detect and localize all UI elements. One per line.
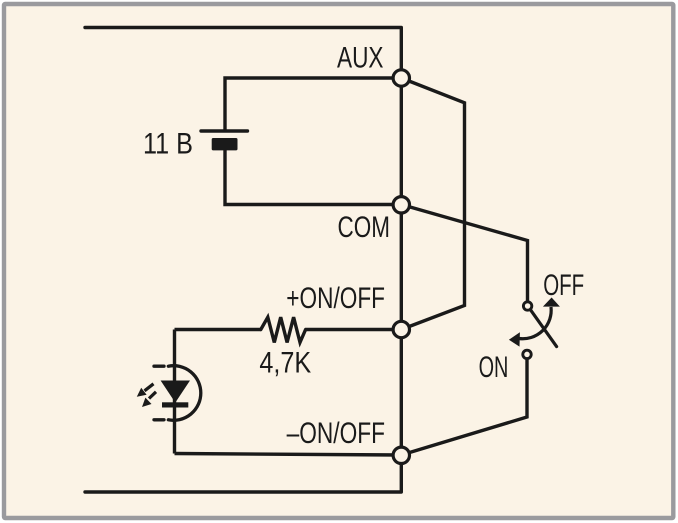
terminal -ON/OFF	[393, 447, 409, 463]
wire resistor left lead	[175, 328, 261, 331]
LED triangle	[161, 381, 190, 403]
LED emission arrow 2	[142, 392, 156, 407]
switch ON contact	[523, 350, 531, 358]
wire ON contact to -ON/OFF	[401, 358, 527, 455]
terminal +ON/OFF	[393, 321, 409, 337]
arrowhead up (OFF direction)	[543, 298, 560, 307]
svg-text:11 В: 11 В	[143, 128, 193, 161]
svg-text:–ON/OFF: –ON/OFF	[287, 417, 385, 450]
LED emission arrow 1	[137, 384, 154, 397]
terminal COM	[393, 197, 409, 213]
svg-text:ON: ON	[479, 351, 509, 384]
svg-text:4,7K: 4,7K	[259, 347, 311, 380]
LED circle arc	[168, 366, 201, 421]
battery G1 11V	[201, 131, 248, 150]
wire top rail	[85, 26, 401, 29]
battery long plate	[201, 129, 248, 132]
switch SA1	[509, 298, 560, 359]
wire battery bottom to COM	[225, 150, 401, 205]
LED / optocoupler diode VD1	[137, 366, 201, 421]
svg-text:AUX: AUX	[337, 41, 384, 74]
LED cathode bar	[162, 402, 188, 407]
switch OFF contact	[523, 302, 531, 310]
wire LED branch left vertical	[173, 330, 176, 454]
svg-text:COM: COM	[338, 211, 391, 244]
wire LED bottom to -ON/OFF	[175, 454, 402, 456]
wire resistor right lead	[306, 328, 402, 331]
LED circle top dash	[154, 365, 164, 368]
switch lever	[531, 310, 557, 347]
terminal AUX	[393, 70, 409, 86]
wire vertical bus	[400, 28, 403, 493]
wire battery top to AUX	[225, 78, 401, 131]
switch rotation arc arrow	[519, 307, 551, 339]
svg-text:OFF: OFF	[543, 269, 584, 302]
LED circle bottom dash	[154, 418, 164, 421]
svg-text:+ON/OFF: +ON/OFF	[286, 282, 385, 315]
arrowhead left (ON direction)	[509, 332, 520, 346]
wire bottom rail	[85, 490, 401, 493]
battery short thick plate	[212, 138, 238, 150]
wire COM diagonal to OFF contact	[401, 205, 527, 302]
resistor R 4,7K zigzag	[261, 317, 306, 342]
wire AUX diagonal link to +ON/OFF	[401, 78, 464, 330]
